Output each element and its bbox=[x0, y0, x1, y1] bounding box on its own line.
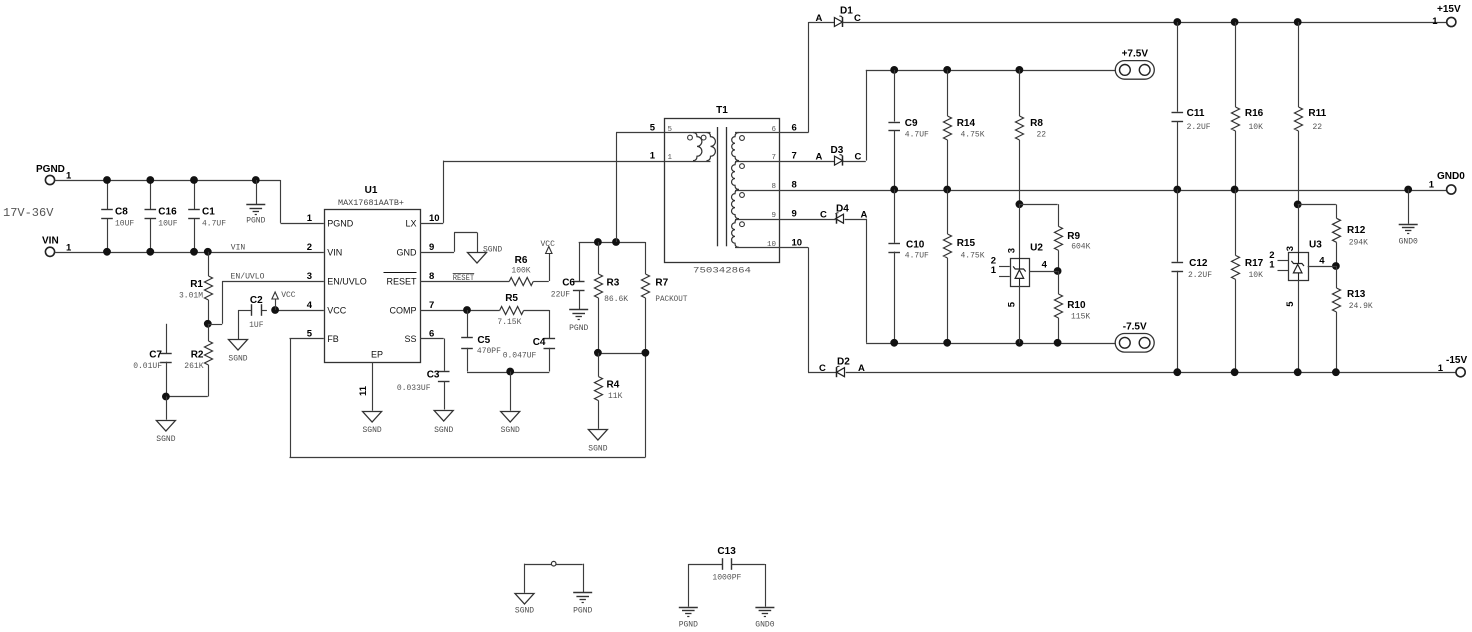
svg-text:3.01M: 3.01M bbox=[179, 292, 203, 301]
svg-text:1UF: 1UF bbox=[249, 321, 264, 330]
svg-text:R17: R17 bbox=[1245, 258, 1264, 269]
svg-text:4.75K: 4.75K bbox=[961, 252, 985, 261]
svg-text:R6: R6 bbox=[515, 255, 528, 266]
svg-text:10: 10 bbox=[792, 237, 803, 248]
svg-text:PGND: PGND bbox=[327, 218, 354, 228]
svg-text:C9: C9 bbox=[905, 118, 918, 129]
svg-text:RESET: RESET bbox=[386, 277, 417, 287]
svg-text:470PF: 470PF bbox=[477, 347, 501, 356]
svg-text:17V-36V: 17V-36V bbox=[3, 206, 54, 220]
svg-text:5: 5 bbox=[650, 123, 656, 134]
svg-text:86.6K: 86.6K bbox=[604, 295, 628, 304]
svg-text:VIN: VIN bbox=[231, 243, 246, 252]
svg-text:7: 7 bbox=[771, 154, 776, 162]
svg-text:1: 1 bbox=[1438, 363, 1444, 374]
svg-text:PGND: PGND bbox=[569, 324, 588, 333]
svg-text:0.01UF: 0.01UF bbox=[133, 362, 162, 371]
svg-text:C: C bbox=[854, 13, 861, 24]
svg-text:C: C bbox=[820, 210, 827, 221]
svg-text:3: 3 bbox=[1007, 248, 1018, 253]
svg-text:R16: R16 bbox=[1245, 108, 1264, 119]
svg-text:A: A bbox=[816, 13, 823, 24]
svg-text:SGND: SGND bbox=[228, 354, 247, 363]
svg-text:9: 9 bbox=[429, 242, 434, 253]
svg-text:4: 4 bbox=[307, 300, 313, 311]
svg-text:7: 7 bbox=[792, 151, 797, 162]
svg-text:T1: T1 bbox=[716, 105, 728, 116]
svg-text:294K: 294K bbox=[1349, 239, 1368, 248]
svg-text:PGND: PGND bbox=[246, 217, 265, 226]
svg-text:1: 1 bbox=[1429, 180, 1435, 191]
svg-text:SGND: SGND bbox=[156, 435, 175, 444]
svg-text:4.7UF: 4.7UF bbox=[905, 252, 929, 261]
svg-text:1: 1 bbox=[307, 213, 313, 224]
svg-text:R7: R7 bbox=[655, 278, 668, 289]
svg-text:D2: D2 bbox=[837, 357, 850, 368]
svg-text:C11: C11 bbox=[1187, 108, 1205, 119]
svg-text:22: 22 bbox=[1313, 123, 1323, 132]
svg-text:1: 1 bbox=[668, 154, 673, 162]
svg-text:7: 7 bbox=[429, 300, 434, 311]
svg-text:GND0: GND0 bbox=[755, 621, 774, 630]
svg-text:R2: R2 bbox=[191, 350, 204, 361]
svg-text:+15V: +15V bbox=[1437, 4, 1461, 15]
svg-text:SS: SS bbox=[404, 334, 416, 344]
svg-text:PGND: PGND bbox=[36, 164, 65, 175]
svg-text:VCC: VCC bbox=[327, 306, 347, 316]
svg-text:5: 5 bbox=[307, 329, 313, 340]
svg-text:6: 6 bbox=[792, 123, 797, 134]
svg-text:D3: D3 bbox=[831, 145, 844, 156]
svg-text:22: 22 bbox=[1037, 131, 1047, 140]
svg-text:R3: R3 bbox=[607, 278, 620, 289]
svg-text:SGND: SGND bbox=[515, 607, 534, 616]
svg-text:C7: C7 bbox=[149, 350, 162, 361]
svg-text:R4: R4 bbox=[607, 380, 620, 391]
svg-text:R5: R5 bbox=[505, 293, 518, 304]
svg-text:VCC: VCC bbox=[541, 240, 556, 249]
svg-text:A: A bbox=[861, 210, 868, 221]
svg-text:SGND: SGND bbox=[501, 426, 520, 435]
svg-text:C: C bbox=[855, 151, 862, 162]
svg-text:8: 8 bbox=[771, 183, 776, 191]
svg-text:R8: R8 bbox=[1030, 118, 1043, 129]
svg-text:VCC: VCC bbox=[281, 291, 296, 300]
svg-text:C5: C5 bbox=[477, 335, 490, 346]
svg-text:PACKOUT: PACKOUT bbox=[655, 295, 687, 304]
svg-text:10UF: 10UF bbox=[115, 220, 134, 229]
svg-text:1: 1 bbox=[1269, 260, 1275, 271]
svg-text:GND0: GND0 bbox=[1399, 238, 1418, 247]
svg-text:3: 3 bbox=[307, 271, 312, 282]
svg-text:1: 1 bbox=[66, 243, 72, 254]
svg-text:VIN: VIN bbox=[42, 236, 59, 247]
svg-text:22UF: 22UF bbox=[551, 291, 570, 300]
svg-text:24.9K: 24.9K bbox=[1349, 302, 1373, 311]
svg-text:10: 10 bbox=[429, 213, 440, 224]
svg-text:0.047UF: 0.047UF bbox=[503, 352, 537, 361]
svg-text:4: 4 bbox=[1319, 256, 1325, 267]
svg-text:C8: C8 bbox=[115, 207, 128, 218]
svg-text:VIN: VIN bbox=[327, 247, 342, 257]
svg-text:4.75K: 4.75K bbox=[961, 131, 985, 140]
svg-text:C1: C1 bbox=[202, 207, 215, 218]
svg-text:C4: C4 bbox=[533, 337, 546, 348]
svg-text:EN/UVLO: EN/UVLO bbox=[327, 277, 367, 287]
svg-text:5: 5 bbox=[668, 126, 673, 134]
svg-text:C6: C6 bbox=[562, 278, 575, 289]
svg-text:1000PF: 1000PF bbox=[712, 574, 741, 583]
svg-text:4.7UF: 4.7UF bbox=[202, 220, 226, 229]
svg-text:R12: R12 bbox=[1347, 225, 1366, 236]
svg-text:PGND: PGND bbox=[573, 607, 592, 616]
svg-text:U3: U3 bbox=[1309, 240, 1322, 251]
svg-text:EN/UVLO: EN/UVLO bbox=[231, 273, 265, 282]
svg-text:MAX17681AATB+: MAX17681AATB+ bbox=[338, 198, 404, 208]
svg-text:750342864: 750342864 bbox=[693, 267, 751, 276]
svg-text:11: 11 bbox=[358, 385, 369, 396]
svg-text:1: 1 bbox=[66, 171, 72, 182]
svg-text:10UF: 10UF bbox=[158, 220, 177, 229]
svg-text:2: 2 bbox=[307, 242, 312, 253]
svg-text:115K: 115K bbox=[1071, 313, 1090, 322]
svg-text:261K: 261K bbox=[184, 362, 203, 371]
svg-text:R11: R11 bbox=[1308, 108, 1326, 119]
svg-text:SGND: SGND bbox=[483, 246, 502, 255]
svg-text:SGND: SGND bbox=[434, 426, 453, 435]
svg-text:GND0: GND0 bbox=[1437, 171, 1465, 182]
svg-text:D4: D4 bbox=[836, 204, 849, 215]
svg-text:4: 4 bbox=[1042, 260, 1048, 271]
svg-text:10K: 10K bbox=[1249, 123, 1264, 132]
svg-text:604K: 604K bbox=[1071, 243, 1090, 252]
svg-text:R1: R1 bbox=[190, 279, 203, 290]
svg-text:COMP: COMP bbox=[390, 306, 417, 316]
svg-text:3: 3 bbox=[1285, 246, 1296, 251]
svg-text:8: 8 bbox=[792, 180, 797, 191]
svg-text:R13: R13 bbox=[1347, 289, 1366, 300]
svg-text:1: 1 bbox=[1432, 16, 1438, 27]
svg-text:-7.5V: -7.5V bbox=[1123, 321, 1147, 332]
svg-text:1: 1 bbox=[650, 151, 656, 162]
svg-text:D1: D1 bbox=[840, 6, 853, 17]
svg-text:5: 5 bbox=[1007, 301, 1018, 307]
svg-text:SGND: SGND bbox=[362, 426, 381, 435]
svg-text:11K: 11K bbox=[608, 392, 623, 401]
svg-text:C3: C3 bbox=[427, 370, 440, 381]
svg-text:8: 8 bbox=[429, 271, 434, 282]
svg-text:C16: C16 bbox=[158, 207, 177, 218]
svg-text:PGND: PGND bbox=[679, 621, 698, 630]
svg-text:R9: R9 bbox=[1067, 231, 1080, 242]
svg-text:SGND: SGND bbox=[588, 445, 607, 454]
svg-text:RESET: RESET bbox=[453, 274, 475, 283]
svg-text:LX: LX bbox=[405, 218, 416, 228]
svg-text:U1: U1 bbox=[365, 185, 378, 196]
svg-text:1: 1 bbox=[991, 265, 997, 276]
svg-text:6: 6 bbox=[429, 329, 434, 340]
svg-text:A: A bbox=[858, 363, 865, 374]
svg-text:4.7UF: 4.7UF bbox=[905, 131, 929, 140]
svg-text:2.2UF: 2.2UF bbox=[1188, 271, 1212, 280]
svg-text:0.033UF: 0.033UF bbox=[397, 384, 431, 393]
svg-text:5: 5 bbox=[1285, 301, 1296, 307]
svg-text:10K: 10K bbox=[1249, 271, 1264, 280]
svg-text:FB: FB bbox=[327, 334, 339, 344]
svg-text:C10: C10 bbox=[906, 240, 925, 251]
svg-text:R10: R10 bbox=[1067, 300, 1086, 311]
svg-text:2.2UF: 2.2UF bbox=[1187, 123, 1211, 132]
svg-text:A: A bbox=[816, 151, 823, 162]
svg-text:100K: 100K bbox=[511, 267, 530, 276]
svg-text:EP: EP bbox=[371, 350, 383, 360]
svg-text:C: C bbox=[819, 363, 826, 374]
svg-text:C2: C2 bbox=[250, 295, 263, 306]
svg-text:R15: R15 bbox=[957, 238, 976, 249]
svg-text:GND: GND bbox=[397, 247, 418, 257]
svg-text:U2: U2 bbox=[1030, 243, 1043, 254]
svg-text:+7.5V: +7.5V bbox=[1122, 48, 1149, 59]
svg-text:9: 9 bbox=[792, 209, 797, 220]
svg-text:R14: R14 bbox=[957, 118, 976, 129]
svg-text:-15V: -15V bbox=[1446, 355, 1467, 366]
svg-text:7.15K: 7.15K bbox=[497, 318, 521, 327]
svg-text:C13: C13 bbox=[717, 546, 736, 557]
svg-text:C12: C12 bbox=[1189, 258, 1208, 269]
